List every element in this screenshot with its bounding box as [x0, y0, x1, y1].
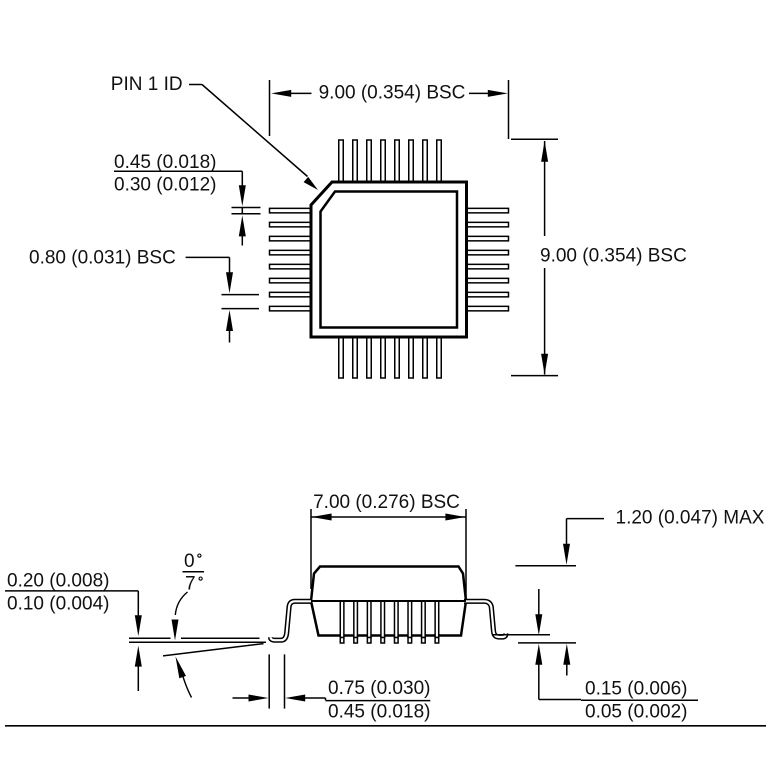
svg-text:0.45 (0.018): 0.45 (0.018) — [114, 152, 216, 173]
svg-text:7: 7 — [185, 574, 196, 595]
svg-text:PIN 1 ID: PIN 1 ID — [111, 74, 183, 95]
svg-text:0.15 (0.006): 0.15 (0.006) — [585, 679, 687, 700]
svg-text:0.80 (0.031) BSC: 0.80 (0.031) BSC — [29, 248, 176, 269]
svg-text:0.10 (0.004): 0.10 (0.004) — [7, 594, 109, 615]
svg-text:0.45 (0.018): 0.45 (0.018) — [328, 701, 430, 722]
svg-text:9.00 (0.354) BSC: 9.00 (0.354) BSC — [319, 83, 466, 104]
svg-text:0.20 (0.008): 0.20 (0.008) — [7, 571, 109, 592]
svg-text:9.00 (0.354) BSC: 9.00 (0.354) BSC — [540, 245, 687, 266]
svg-text:0: 0 — [184, 551, 195, 572]
svg-text:1.20 (0.047) MAX: 1.20 (0.047) MAX — [616, 508, 765, 529]
svg-text:0.05 (0.002): 0.05 (0.002) — [585, 702, 687, 723]
svg-text:0.75 (0.030): 0.75 (0.030) — [328, 678, 430, 699]
svg-text:7.00 (0.276) BSC: 7.00 (0.276) BSC — [313, 492, 460, 513]
svg-text:0.30 (0.012): 0.30 (0.012) — [114, 175, 216, 196]
